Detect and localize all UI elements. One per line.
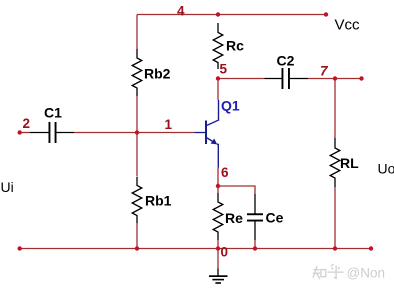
svg-text:Rb1: Rb1	[145, 193, 172, 209]
svg-text:4: 4	[177, 4, 185, 19]
svg-text:C2: C2	[277, 53, 295, 69]
svg-text:Rb2: Rb2	[144, 66, 171, 82]
svg-text:Ce: Ce	[266, 210, 284, 226]
svg-text:0: 0	[221, 245, 229, 260]
svg-text:2: 2	[23, 116, 31, 131]
svg-text:Re: Re	[225, 210, 243, 226]
svg-text:6: 6	[221, 165, 229, 180]
svg-text:Ui: Ui	[1, 179, 14, 195]
svg-text:Uo: Uo	[378, 161, 394, 177]
svg-text:Q1: Q1	[221, 98, 240, 114]
svg-text:Rc: Rc	[226, 38, 244, 54]
svg-text:RL: RL	[340, 155, 359, 171]
svg-text:@Non: @Non	[347, 266, 385, 281]
svg-text:1: 1	[165, 117, 173, 132]
svg-text:Vcc: Vcc	[335, 17, 361, 34]
svg-text:C1: C1	[44, 105, 62, 121]
svg-text:5: 5	[220, 62, 228, 77]
